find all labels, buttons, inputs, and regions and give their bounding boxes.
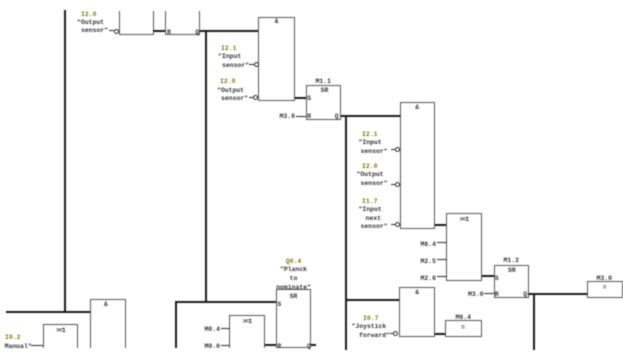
wire M0.0 to U10 input 2 <box>221 345 230 346</box>
wire vertical branch x=346 down to AND gate U7 <box>345 115 347 350</box>
label symbol nominate" <box>276 285 311 291</box>
wire vertical branch x=534 downward <box>533 293 535 351</box>
box U1 (top-left block, top cut off) <box>119 11 154 35</box>
label address I2.0 (second) <box>220 79 235 85</box>
pin label Q of M1.1 <box>335 114 339 120</box>
label symbol sensor" (second) <box>221 96 248 102</box>
pin label Q of Q0.4 <box>307 344 311 350</box>
label M6.4 above assign coil <box>456 315 471 321</box>
label symbol "Joystick <box>352 324 387 330</box>
wire U10 output to R input of SR Q0.4 <box>265 344 277 346</box>
wire M1.1 Q output to AND gate U4 <box>341 115 401 117</box>
SR flip-flop M1.2 box <box>494 265 529 299</box>
label symbol sensor" (line 2) <box>81 28 108 34</box>
wire stub to negated input 2 of U7 <box>390 333 394 334</box>
label SR of M1.1 <box>321 88 329 94</box>
wire left power rail (vertical, x=65) <box>64 10 66 313</box>
SR flip-flop Q0.4 box <box>276 289 311 348</box>
AND gate U4 box <box>400 102 436 229</box>
label symbol Manual" (left-clipped) <box>5 344 32 350</box>
negation circle input 2 of U4 <box>395 147 400 152</box>
label operand M3.0 at R input of M1.1 <box>280 114 295 120</box>
label M1.2 above SR box <box>504 258 519 264</box>
label symbol sensor" <box>222 63 249 69</box>
wire U7 output to coil M6.4 <box>435 333 446 335</box>
wire horizontal to S input of SR Q0.4 (y=302) <box>175 301 277 303</box>
wire stub to negated input 4 of U4 <box>391 224 396 225</box>
wire vertical branch x=176 downward <box>175 301 177 348</box>
pin label Q of M1.2 <box>523 292 527 298</box>
label = inside coil M6.4 <box>461 325 465 331</box>
label address I2.1 <box>221 46 236 52</box>
OR gate U9 box (bottom cut off) <box>43 324 78 348</box>
wire stub from label to negated input of box U1 <box>109 30 114 31</box>
wire vertical branch x=206 down to rung 5 <box>205 30 207 303</box>
pin label R of U2 <box>167 30 171 36</box>
label operand M0.4 at U10 input 1 <box>205 327 220 333</box>
wire stub to negated input 3 of U4 <box>391 184 396 185</box>
box U2 (SR block, top cut off) <box>165 11 200 35</box>
wire U5 output to S input of SR M1.2 <box>482 275 495 277</box>
assign coil M3.0 box <box>587 281 623 299</box>
label & of U3 <box>275 19 279 25</box>
label operand M2.5 at U5 input 3 <box>421 259 436 265</box>
label address Q0.4 above SR box <box>286 259 301 265</box>
label symbol to <box>290 276 298 282</box>
wire I0.2 Manual to OR gate U9 <box>31 345 43 346</box>
pin label S of M1.2 <box>495 276 499 282</box>
pin label S of Q0.4 <box>277 302 281 308</box>
label & of U4 <box>415 105 419 111</box>
label symbol "Input (U4) <box>359 140 382 146</box>
assign coil M6.4 box <box>445 320 482 337</box>
pin label S of M1.1 <box>307 96 311 102</box>
label operand M2.6 at U5 input 4 <box>421 276 436 282</box>
wire Q output stub of Q0.4 <box>311 344 317 346</box>
label address I0.7 <box>363 316 378 322</box>
label symbol "Planck <box>280 267 307 273</box>
wire U4 output to OR gate U5 <box>435 224 447 226</box>
pin label R of M1.2 <box>495 292 499 298</box>
label M1.1 above SR box <box>316 79 331 85</box>
pin label R of Q0.4 <box>277 344 281 350</box>
wire M0.4 to U10 input 1 <box>221 328 230 329</box>
label SR of Q0.4 <box>290 294 298 300</box>
label address I1.7 <box>362 199 377 205</box>
pin label R of M1.1 <box>307 114 311 120</box>
label >=1 of U9 <box>56 328 65 334</box>
label M3.0 above assign coil <box>597 276 612 282</box>
wire stub to negated input 3 of U3 <box>249 97 254 98</box>
OR gate U5 box <box>446 213 482 282</box>
wire M6.4 to U5 input 2 <box>437 242 447 243</box>
label & of U8 <box>104 302 108 308</box>
label >=1 of U5 <box>460 217 469 223</box>
wire branch to AND gate U7 input 1 (y=300) <box>346 299 399 301</box>
label symbol sensor" (U4) <box>361 149 388 155</box>
label SR of M1.2 <box>508 268 516 274</box>
label address I2.1 (U4 input) <box>362 132 377 138</box>
label operand M6.4 at U5 input 2 <box>421 242 436 248</box>
wire U1 output to U2 R input <box>153 30 166 32</box>
wire M3.0 to R input of M1.1 <box>296 116 306 117</box>
label = inside coil M3.0 <box>603 285 607 291</box>
AND gate U8 box (bottom cut off) <box>90 299 127 348</box>
label address I2.0 (operand of first negated input) <box>81 12 96 18</box>
wire M2.6 to U5 input 4 <box>437 276 447 277</box>
label operand M0.0 at U10 input 2 <box>205 344 220 350</box>
label symbol "Output (line 1) <box>77 20 104 26</box>
pin label Q of U2 <box>195 30 199 36</box>
label symbol forward" <box>359 333 390 339</box>
negation circle input 3 of U4 <box>395 182 400 187</box>
label symbol "Output (U4) <box>357 172 384 178</box>
negation circle input 4 of U4 <box>395 222 400 227</box>
label symbol "Input (I1.7) <box>359 207 382 213</box>
wire stub to negated input 2 of U3 <box>249 64 254 65</box>
label symbol sensor" (U4) <box>361 181 388 187</box>
wire U3 output to S input of SR M1.1 <box>295 97 307 99</box>
label address I2.0 (U4 input) <box>362 164 377 170</box>
wire stub to negated input 2 of U4 <box>391 149 396 150</box>
wire horizontal into AND gate U8 (y=312) <box>6 311 90 313</box>
label address I0.2 <box>5 335 20 341</box>
AND gate U7 box <box>399 287 436 337</box>
label symbol sensor" (I1.7) <box>361 224 388 230</box>
wire U2 Q output to AND gate U3 <box>200 30 259 32</box>
wire M3.0 to R input of M1.2 <box>484 293 494 294</box>
OR gate U10 box (bottom cut off) <box>229 315 265 348</box>
negation circle input 2 of U7 <box>393 331 398 336</box>
wire M2.5 to U5 input 3 <box>437 259 447 260</box>
AND gate U3 box <box>258 17 295 101</box>
label symbol "Input <box>218 54 241 60</box>
SR flip-flop M1.1 box <box>306 85 341 120</box>
label & of U7 <box>415 290 419 296</box>
negation circle input 3 of U3 <box>253 95 258 100</box>
wire M1.2 Q output to coil M3.0 <box>528 293 588 295</box>
negation circle at input of box U1 <box>114 29 119 34</box>
label symbol next (I1.7) <box>366 216 381 222</box>
negation circle input 2 of U3 <box>254 62 259 67</box>
label >=1 of U10 <box>243 319 252 325</box>
label symbol "Output (second) <box>217 88 244 94</box>
label operand M3.0 at R input of M1.2 <box>468 292 483 298</box>
